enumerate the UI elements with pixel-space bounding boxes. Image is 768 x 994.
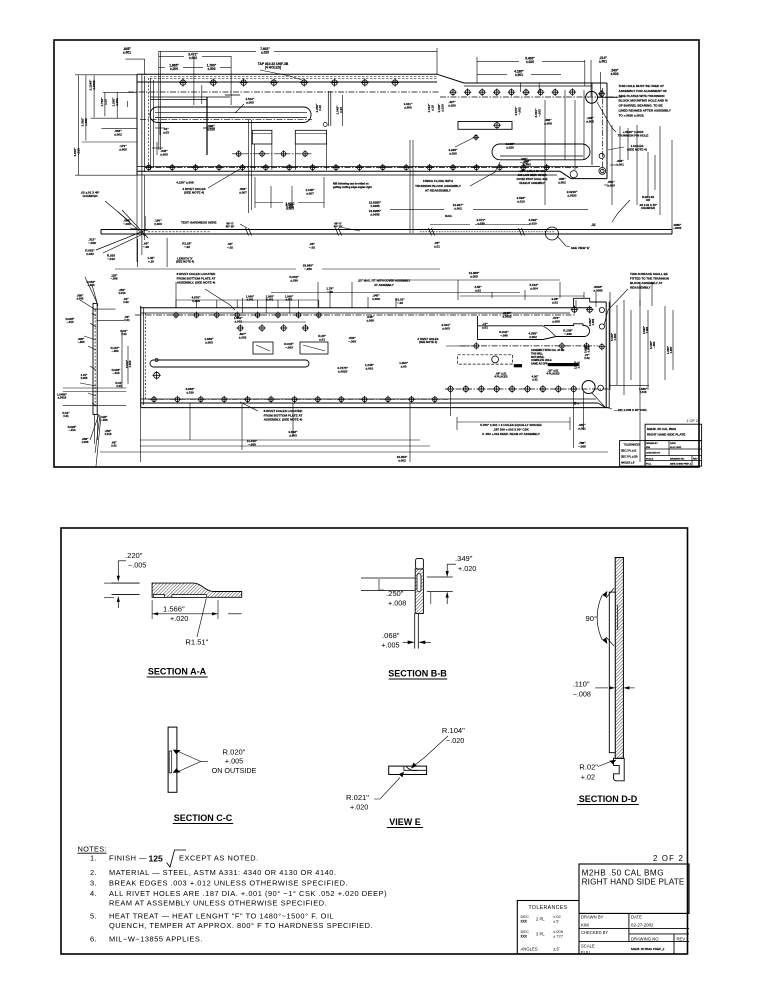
svg-text:.190"±.003: .190"±.003 [154, 219, 162, 226]
svg-text:REAM AT ASSEMBLY: REAM AT ASSEMBLY [519, 182, 545, 185]
sheet1 tolerance box [620, 441, 646, 467]
svg-text:4 RIVET HOLES(SEE NOTE 4): 4 RIVET HOLES(SEE NOTE 4) [182, 187, 205, 194]
3 rivet holes row [473, 342, 480, 349]
svg-text:7.602"±.020: 7.602"±.020 [260, 47, 270, 55]
svg-text:.068": .068" [382, 631, 400, 640]
svg-text:−.020: −.020 [446, 736, 464, 745]
svg-text:THIS SURFACE SHALL BE: THIS SURFACE SHALL BE [630, 272, 668, 276]
svg-text:VIEW E: VIEW E [389, 817, 421, 827]
svg-text:4.602"−.010: 4.602"−.010 [73, 147, 80, 157]
svg-text:.32: .32 [591, 223, 596, 227]
svg-text:.398"±.010: .398"±.010 [207, 124, 215, 131]
svg-text:.172"±.005: .172"±.005 [119, 144, 127, 151]
svg-text:3.472"±.002: 3.472"±.002 [188, 53, 198, 61]
svg-text:MIL−W−13855 APPLIES.: MIL−W−13855 APPLIES. [109, 935, 203, 944]
sheet1 title box [645, 424, 702, 440]
extension lines above top view [144, 59, 146, 75]
svg-text:.220": .220" [125, 551, 143, 560]
svg-text:DEC: DEC [521, 914, 530, 919]
bottom rivet row [145, 164, 152, 171]
svg-text:1.045"±.007: 1.045"±.007 [306, 188, 316, 195]
svg-text:BLOCK ASSEMBLY AT: BLOCK ASSEMBLY AT [630, 281, 662, 285]
svg-text:9.001"±.003: 9.001"±.003 [442, 323, 452, 330]
svg-text:.466"±.008: .466"±.008 [544, 118, 552, 125]
svg-text:.635"±.002: .635"±.002 [558, 177, 566, 184]
svg-text:FINISH FLUSH WITH: FINISH FLUSH WITH [423, 179, 454, 183]
svg-text:4.965"±.020: 4.965"±.020 [449, 148, 459, 155]
svg-text:6.: 6. [90, 935, 97, 944]
svg-text:±.5´: ±.5´ [553, 947, 561, 952]
svg-text:1.000"±.001: 1.000"±.001 [285, 295, 294, 302]
section D-D 90 deg arc [597, 595, 602, 640]
svg-text:02-27-2002: 02-27-2002 [631, 923, 654, 928]
svg-text:TOLERANCES: TOLERANCES [624, 444, 641, 447]
svg-text:DATE: DATE [631, 915, 642, 920]
svg-text:R1.51": R1.51" [185, 638, 208, 647]
svg-text:.089"±.005: .089"±.005 [77, 294, 85, 301]
svg-text:.250": .250" [386, 589, 404, 598]
svg-text:±.5´: ±.5´ [553, 919, 560, 924]
sheet1 info box [645, 441, 702, 467]
svg-text:REASSEMBLY: REASSEMBLY [630, 286, 651, 290]
svg-text:3.: 3. [90, 879, 97, 888]
svg-text:SAME AS OPP.: SAME AS OPP. [531, 363, 548, 366]
svg-text:4.180"±.001: 4.180"±.001 [514, 70, 524, 78]
lower trunnion hole [582, 381, 595, 394]
view E circle on edge [546, 227, 559, 240]
svg-text:2.7275"±.0025: 2.7275"±.0025 [337, 366, 348, 373]
svg-text:RAD.: RAD. [445, 214, 452, 218]
svg-text:.549"±.003: .549"±.003 [611, 69, 619, 77]
extension lines above lower view [175, 300, 177, 308]
svg-text:SECTION D-D: SECTION D-D [579, 794, 638, 804]
slot end verticals [327, 91, 329, 126]
svg-text:COVER PIVOT HOLE. SEE: COVER PIVOT HOLE. SEE [516, 178, 547, 181]
svg-text:.788"−.005: .788"−.005 [578, 441, 586, 448]
svg-text:BREAK EDGES .003 +.012 UNLESS: BREAK EDGES .003 +.012 UNLESS OTHERWISE … [109, 879, 348, 888]
dashed pocket [458, 355, 513, 364]
svg-text:SEE VIEW 'E': SEE VIEW 'E' [571, 246, 590, 250]
svg-text:getting cutting edge angles ri: getting cutting edge angles right [333, 186, 372, 189]
top view centerlines [128, 91, 440, 93]
svg-text:TO +.5620 ±.0015.: TO +.5620 ±.0015. [619, 113, 645, 117]
svg-text:02-27-2002: 02-27-2002 [670, 447, 682, 449]
svg-text:TEST HARDNESS HERE: TEST HARDNESS HERE [181, 221, 217, 225]
section A-A hatched shape [152, 583, 242, 597]
svg-text:AT REASSEMBLY: AT REASSEMBLY [425, 189, 452, 193]
right column holes [571, 306, 579, 314]
svg-text:ASSEMBLY. (SEE NOTE 4): ASSEMBLY. (SEE NOTE 4) [264, 418, 303, 422]
svg-text:2.1248"±.0005: 2.1248"±.0005 [89, 79, 96, 90]
svg-text:ANGLES: ANGLES [521, 947, 538, 952]
svg-text:DEC 3 PL ±.005: DEC 3 PL ±.005 [621, 457, 638, 459]
edge view strip [101, 229, 672, 231]
svg-text:THIS HOLE MUST BE USED AT: THIS HOLE MUST BE USED AT [619, 84, 664, 88]
svg-text:1.043"±.010: 1.043"±.010 [437, 103, 444, 113]
svg-text:FULL: FULL [646, 464, 652, 466]
sheet 1 border frame [54, 40, 699, 467]
keyhole cutout right [477, 316, 479, 340]
svg-text:—.221 ±.008 X 90° CSK.: —.221 ±.008 X 90° CSK. [614, 408, 648, 412]
svg-text:±.727: ±.727 [553, 934, 564, 939]
svg-text:CHECKED BY: CHECKED BY [581, 930, 608, 935]
svg-text:FULL: FULL [581, 950, 592, 955]
svg-text:.02 ±.01 X 45°CHAMFER: .02 ±.01 X 45°CHAMFER [80, 191, 100, 198]
section D-D shape [615, 558, 623, 759]
svg-text:.252"±.013: .252"±.013 [105, 429, 113, 436]
svg-text:TOLERANCES: TOLERANCES [528, 905, 567, 911]
bottom right 9-hole row [447, 385, 455, 393]
lower second row [237, 324, 244, 331]
svg-text:.02 ±.01 X 45°CHAMFER: .02 ±.01 X 45°CHAMFER [639, 203, 657, 210]
sheet2 title box [579, 864, 689, 913]
svg-text:3.019"±.003: 3.019"±.003 [125, 359, 132, 368]
svg-text:1.052"±.001: 1.052"±.001 [234, 316, 244, 323]
svg-text:−.008: −.008 [573, 690, 591, 699]
svg-text:B→: B→ [574, 402, 580, 406]
left end internal detail lines [150, 96, 230, 98]
svg-text:.66"±.01: .66"±.01 [111, 441, 117, 448]
svg-text:R.015"−.003: R.015"−.003 [284, 342, 294, 349]
svg-text:.308 ±.010 DEEP. COVER: .308 ±.010 DEEP. COVER [517, 174, 546, 177]
left bar leaders [85, 277, 97, 303]
svg-text:4.510"±.005: 4.510"±.005 [246, 97, 256, 104]
svg-text:NOTES:: NOTES: [78, 845, 107, 854]
view E shape [389, 766, 427, 774]
svg-text:ANGLES ±.5°: ANGLES ±.5° [621, 462, 635, 465]
svg-text:1.865"±.200: 1.865"±.200 [169, 64, 179, 72]
rail slot [150, 107, 311, 123]
svg-text:X .052 +.019 DEEP. REAM AT ASS: X .052 +.019 DEEP. REAM AT ASSEMBLY [482, 432, 540, 436]
cover tabs top view [252, 130, 272, 144]
svg-text:CHECKED BY: CHECKED BY [646, 453, 661, 455]
section B-B sheet lines [361, 577, 415, 579]
svg-text:DRAWING NO: DRAWING NO [631, 936, 659, 941]
svg-text:SIDE PLATES WITH TRUNNION: SIDE PLATES WITH TRUNNION [619, 94, 666, 98]
svg-text:.95"−.08: .95"−.08 [143, 242, 149, 249]
slider block [458, 122, 512, 130]
extension lines below lower view [140, 403, 142, 462]
bottom left rivet row [151, 396, 158, 403]
svg-text:.089"±.005: .089"±.005 [82, 437, 90, 444]
svg-text:.31"±.03: .31"±.03 [163, 127, 169, 134]
svg-text:125: 125 [149, 854, 164, 864]
svg-text:KIM: KIM [646, 447, 650, 449]
svg-text:.0965"±.0025: .0965"±.0025 [502, 311, 512, 318]
svg-text:+.020: +.020 [170, 614, 188, 623]
svg-text:M2HB .50 CAL BMG: M2HB .50 CAL BMG [647, 427, 677, 431]
svg-text:3 PL: 3 PL [536, 932, 545, 937]
svg-text:.095"−.003: .095"−.003 [520, 157, 528, 164]
svg-text:1.566": 1.566" [163, 605, 185, 614]
svg-text:R.020": R.020" [223, 748, 246, 757]
svg-text:DATE: DATE [670, 442, 676, 445]
svg-text:9.603"±.003: 9.603"±.003 [289, 430, 299, 437]
svg-text:5.400"±.020: 5.400"±.020 [525, 57, 535, 65]
svg-text:M2HB .50 CAL BMG: M2HB .50 CAL BMG [582, 869, 664, 878]
svg-text:ASSEMBLY FOR ALIGNMENT OF: ASSEMBLY FOR ALIGNMENT OF [619, 89, 668, 93]
svg-text:.045"±.005: .045"±.005 [160, 149, 168, 156]
svg-text:REV: REV [677, 936, 686, 941]
svg-text:3.001"−.003: 3.001"−.003 [534, 108, 541, 118]
svg-text:TRUNNION BLOCK ASSEMBLY: TRUNNION BLOCK ASSEMBLY [415, 184, 462, 188]
svg-text:.563"±.002: .563"±.002 [114, 129, 122, 136]
svg-text:R.02": R.02" [579, 763, 598, 772]
svg-text:1.000"±.001: 1.000"±.001 [266, 295, 275, 302]
svg-text:DEC 2 PL ±.02: DEC 2 PL ±.02 [621, 451, 637, 453]
sheet 2 border frame [61, 528, 688, 954]
svg-text:XXX: XXX [521, 935, 528, 939]
svg-text:SECTION C-C: SECTION C-C [174, 813, 233, 823]
section C-C shape [168, 727, 177, 792]
svg-text:.125"−.055: .125"−.055 [100, 415, 108, 422]
svg-text:4.: 4. [90, 889, 97, 898]
svg-text:.06"±.01: .06"±.01 [124, 315, 130, 322]
svg-text:1.684"±.003: 1.684"±.003 [205, 337, 215, 344]
right extension verticals top view [544, 100, 546, 205]
svg-text:+.008: +.008 [388, 599, 406, 608]
vertical dim lines left lower [127, 346, 129, 384]
svg-text:3.936"±.010: 3.936"±.010 [186, 387, 196, 394]
svg-text:.573"±.005: .573"±.005 [552, 316, 560, 323]
svg-text:.065"−.005: .065"−.005 [123, 219, 131, 226]
svg-text:1.911"±.500: 1.911"±.500 [404, 102, 413, 109]
svg-text:M2HB .50 BMG PREP_2: M2HB .50 BMG PREP_2 [631, 947, 665, 951]
svg-text:.845"±.001: .845"±.001 [123, 47, 131, 55]
svg-text:.551"±.003: .551"±.003 [607, 180, 615, 187]
right band holes [598, 90, 605, 97]
svg-text:5.: 5. [90, 912, 97, 921]
svg-text:5.515"±.004: 5.515"±.004 [530, 283, 540, 290]
edge view left chamfer cross [122, 210, 148, 238]
dim 7.602 [159, 51, 256, 53]
svg-text:2 OF 2: 2 OF 2 [653, 854, 684, 863]
svg-text:LINED REAMED AFTER ASSEMBLY: LINED REAMED AFTER ASSEMBLY [619, 109, 672, 113]
svg-text:.245"±.008: .245"±.008 [372, 294, 380, 301]
svg-text:M2HB .50 BMG PREP_2: M2HB .50 BMG PREP_2 [670, 464, 691, 466]
lower view centerlines [135, 314, 575, 316]
svg-text:HEAT TREAT — HEAT LENGHT "F" T: HEAT TREAT — HEAT LENGHT "F" TO 1480°~15… [109, 912, 334, 921]
svg-text:.10" ±.014 PLACES: .10" ±.014 PLACES [546, 369, 559, 376]
svg-text:KIM: KIM [581, 923, 589, 928]
svg-text:EXCEPT AS NOTED.: EXCEPT AS NOTED. [179, 854, 259, 863]
svg-text:3.382"±.002: 3.382"±.002 [81, 117, 88, 127]
svg-text:XXX: XXX [521, 920, 528, 924]
svg-text:6.965"±.020: 6.965"±.020 [506, 142, 516, 149]
sheet2 tolerance box [517, 901, 579, 955]
svg-text:.1885"−.0005: .1885"−.0005 [673, 223, 682, 230]
svg-text:2.870"−.002: 2.870"−.002 [514, 106, 521, 116]
svg-text:FINISH —: FINISH — [109, 854, 147, 863]
svg-text:R.041"−.080: R.041"−.080 [499, 330, 509, 337]
svg-text:+.020: +.020 [350, 803, 368, 812]
svg-text:.110": .110" [573, 680, 590, 689]
svg-text:2 PL: 2 PL [536, 917, 545, 922]
svg-text:R.025−.013: R.025−.013 [107, 254, 115, 261]
left dimension cluster top view [77, 75, 79, 175]
svg-text:AT ASSEMBLY: AT ASSEMBLY [374, 283, 394, 287]
svg-text:R.021": R.021" [346, 793, 369, 802]
long slot lower view [150, 360, 309, 367]
svg-text:1.760"±.500: 1.760"±.500 [207, 64, 217, 72]
svg-text:.8303"±.0065: .8303"±.0065 [593, 285, 603, 292]
section B-B shape [415, 569, 423, 614]
svg-text:OF BARREL BEARING. TO BE: OF BARREL BEARING. TO BE [619, 104, 663, 108]
svg-text:.398"±.001: .398"±.001 [616, 159, 624, 166]
svg-text:.06" ±.014 PLACES: .06" ±.014 PLACES [494, 372, 507, 379]
svg-text:MATERIAL — STEEL, ASTM A331:: MATERIAL — STEEL, ASTM A331: 4340 OR 413… [109, 868, 337, 877]
svg-text:4.593"±.010: 4.593"±.010 [517, 196, 527, 203]
svg-text:R.138"−.030: R.138"−.030 [563, 329, 573, 336]
svg-text:ON OUTSIDE: ON OUTSIDE [212, 766, 257, 775]
svg-text:.320"−.005: .320"−.005 [77, 337, 85, 344]
tapped hole row left [179, 79, 187, 87]
svg-text:1.31"±.005: 1.31"±.005 [81, 373, 89, 380]
svg-text:ALL RIVET HOLES ARE .187 DIA.: ALL RIVET HOLES ARE .187 DIA. +.001 (90°… [109, 889, 387, 898]
svg-text:RIGHT HAND SIDE PLATE: RIGHT HAND SIDE PLATE [647, 433, 685, 437]
svg-text:.045"±.005: .045"±.005 [366, 315, 374, 322]
svg-text:.803"±.007: .803"±.007 [239, 187, 247, 194]
svg-text:DRAWN BY: DRAWN BY [646, 442, 658, 445]
rivet row mid 4 holes [232, 153, 312, 155]
lower view plate outline [140, 306, 142, 408]
svg-text:.03"−.02: .03"−.02 [227, 242, 233, 249]
svg-text:SCALE: SCALE [646, 457, 654, 460]
svg-text:1.: 1. [90, 854, 97, 863]
svg-text:1.248"±.001: 1.248"±.001 [365, 363, 375, 370]
svg-text:ASSEMBLY. (SEE NOTE 4): ASSEMBLY. (SEE NOTE 4) [177, 281, 216, 285]
svg-text:66° 0'45° 30': 66° 0'45° 30' [226, 222, 235, 229]
svg-text:−.005: −.005 [128, 561, 146, 570]
tab extension verticals [254, 144, 256, 170]
svg-text:.17"±.01: .17"±.01 [482, 322, 488, 329]
svg-text:.950"±.001: .950"±.001 [578, 423, 586, 430]
svg-text:RIGHT HAND SIDE PLATE: RIGHT HAND SIDE PLATE [582, 877, 685, 886]
svg-text:+.005: +.005 [381, 641, 399, 650]
svg-text:.807"±.003: .807"±.003 [239, 332, 247, 339]
dims 5.400 4.180 [477, 60, 519, 62]
svg-text:.427"±.020: .427"±.020 [448, 100, 456, 107]
trunnion pin hole callout [597, 102, 616, 132]
svg-text:1 OF 2: 1 OF 2 [686, 419, 698, 423]
svg-text:.05"±.01: .05"±.01 [434, 241, 440, 248]
svg-text:+.02: +.02 [581, 773, 595, 782]
svg-text:DRAWING NO: DRAWING NO [670, 457, 685, 460]
svg-text:SCALE: SCALE [581, 944, 595, 949]
lower top rivet row [173, 312, 180, 319]
dim 12.927 [390, 208, 444, 210]
svg-text:.187 DIA +.002 X 90° CSK: .187 DIA +.002 X 90° CSK [493, 427, 529, 431]
sheet2 info rows [579, 912, 689, 914]
svg-text:.500"−.008: .500"−.008 [348, 336, 356, 343]
svg-text:.27"±.02: .27"±.02 [584, 353, 590, 360]
svg-text:3.400"±.003: 3.400"±.003 [286, 203, 296, 210]
svg-text:4.576"±.008: 4.576"±.008 [192, 296, 202, 303]
svg-text:90°: 90° [586, 614, 597, 623]
svg-text:SECTION A-A: SECTION A-A [148, 667, 207, 677]
svg-text:.214"±.001: .214"±.001 [599, 56, 607, 64]
svg-text:.198"±.003: .198"±.003 [586, 116, 594, 123]
svg-text:.03"−.02: .03"−.02 [309, 242, 315, 249]
svg-text:+.020: +.020 [458, 564, 476, 573]
svg-text:1.0456"±.0016: 1.0456"±.0016 [57, 393, 68, 400]
section A-A dim 1.566 [152, 613, 218, 615]
svg-text:.349": .349" [455, 554, 473, 563]
svg-text:4.155" ±.008: 4.155" ±.008 [176, 181, 194, 185]
svg-text:LENGTH 'X'(SEE NOTE 4): LENGTH 'X'(SEE NOTE 4) [176, 257, 194, 264]
right vertical dims [609, 300, 611, 390]
svg-text:5.760" ±.001 = 9 HOLES EQUALLY: 5.760" ±.001 = 9 HOLES EQUALLY SPACED [480, 423, 542, 427]
section A-A thin sheet lines [112, 582, 140, 584]
svg-text:QUENCH, TEMPER AT APPROX. 800°: QUENCH, TEMPER AT APPROX. 800° F TO HARD… [109, 921, 373, 930]
svg-text:REV: REV [693, 458, 698, 460]
svg-text:BLOCK MOUNTING HOLE AND ℅: BLOCK MOUNTING HOLE AND ℅ [619, 99, 668, 103]
svg-text:.252"±.013: .252"±.013 [119, 288, 127, 295]
svg-text:DEC: DEC [521, 929, 530, 934]
4 holes callout [608, 147, 624, 150]
svg-text:4.353"±.002: 4.353"±.002 [529, 332, 539, 339]
edge strip hatch ticks [130, 228, 148, 231]
svg-text:.125"−.008: .125"−.008 [110, 274, 118, 281]
tabs on lower view [253, 342, 273, 354]
svg-text:2.0215"±.0020: 2.0215"±.0020 [567, 190, 578, 197]
top view plate outline [137, 73, 437, 75]
svg-text:DRAWN BY: DRAWN BY [581, 915, 604, 920]
svg-text:.92"±.02: .92"±.02 [123, 297, 129, 304]
svg-text:FITTED TO THE TRUNNION: FITTED TO THE TRUNNION [630, 277, 669, 281]
lower view left edge bar [93, 303, 97, 414]
tapped hole row right [449, 89, 456, 96]
svg-text:3 RIVET HOLES(SEE NOTE 4): 3 RIVET HOLES(SEE NOTE 4) [418, 337, 439, 344]
svg-text:.313"−.008: .313"−.008 [88, 238, 96, 245]
svg-text:1.000"±.001: 1.000"±.001 [246, 295, 255, 302]
svg-text:+.005: +.005 [225, 757, 243, 766]
svg-text:REAM AT ASSEMBLY UNLESS OTHERW: REAM AT ASSEMBLY UNLESS OTHERWISE SPECIF… [109, 898, 327, 907]
lower right slot [492, 144, 590, 160]
svg-text:1.250"±.001: 1.250"±.001 [112, 97, 119, 107]
svg-text:R.104": R.104" [442, 726, 465, 735]
svg-text:+.250" ±.001 X 90° CSK: +.250" ±.001 X 90° CSK [518, 170, 545, 173]
svg-text:SECTION B-B: SECTION B-B [388, 669, 447, 679]
svg-text:2.: 2. [90, 868, 97, 877]
dim 3.472 [159, 56, 184, 58]
trunnion hole [586, 91, 598, 103]
